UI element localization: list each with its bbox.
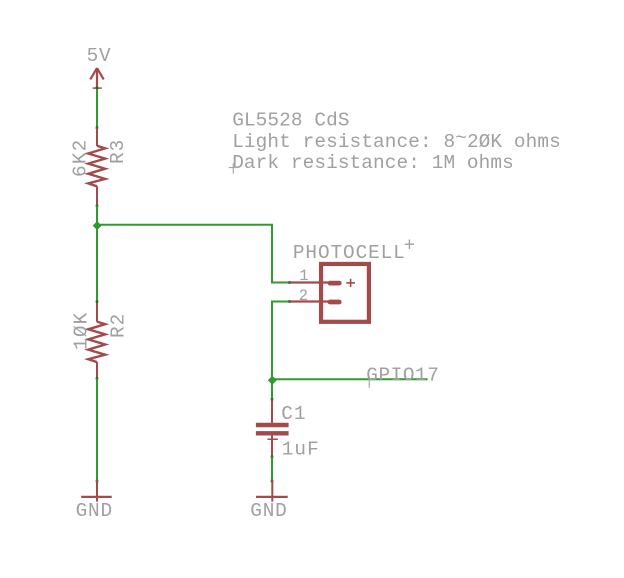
ground symbol left [81,480,112,502]
pin connection dot pin2 [288,300,291,303]
pin 2 lead [290,300,328,302]
pin connection dot top of R3 [96,126,99,129]
svg-text:1uF: 1uF [282,439,320,461]
pin connection dot left GND [96,480,99,483]
pin 1 head bar [330,281,339,286]
pin connection dot right GND [271,480,274,483]
wire C1 to GND [271,457,273,481]
wire pin 2 down to GPIO junction [272,302,290,400]
note text origin cross [229,163,238,173]
resistor R2 [88,302,105,379]
svg-text:GPIO17: GPIO17 [366,365,439,387]
junction node at R3/R2 [93,221,102,230]
svg-text:2: 2 [299,287,308,305]
svg-text:1: 1 [299,267,308,285]
svg-text:C1: C1 [281,403,306,425]
pin connection dot bottom C1 [271,456,274,459]
pin 2 head bar [330,300,339,305]
svg-text:R2: R2 [108,313,130,338]
ground symbol right [256,480,288,502]
pin connection dot bottom R2 [96,377,99,380]
pin connection dot pin1 [288,281,291,284]
wire junction to connector pin 1 [97,225,290,283]
svg-text:1ØK: 1ØK [70,311,92,350]
svg-text:+: + [404,235,415,257]
svg-text:6K2: 6K2 [70,138,92,177]
plus mark at pin 1 [346,279,355,287]
svg-text:5V: 5V [87,45,112,67]
label origin tick [368,379,370,388]
wire R2 to GND [96,379,98,482]
svg-text:GND: GND [76,500,113,522]
junction node GPIO17 [268,376,277,385]
connector U$1 box [321,264,369,322]
wire R3 to R2 vertical [96,206,98,302]
pin connection dot top C1 [271,398,274,401]
pin connection dot top R2 [96,300,99,303]
pin connection dot at 5V pin [96,87,99,90]
pin 1 lead [290,281,328,283]
capacitor C1 [256,399,289,457]
svg-text:GL5528 CdS: GL5528 CdS [232,110,349,132]
wire 5V to R3 [96,88,98,128]
svg-text:PHOTOCELL: PHOTOCELL [293,242,406,264]
resistor R3 [88,128,105,206]
svg-text:Dark resistance: 1M ohms: Dark resistance: 1M ohms [232,152,514,174]
wire GPIO17 net [272,378,428,380]
svg-text:Light resistance: 8~2ØK ohms: Light resistance: 8~2ØK ohms [232,128,561,154]
supply symbol 5V arrow [90,68,103,88]
svg-text:R3: R3 [107,139,129,164]
svg-text:GND: GND [250,500,287,522]
pin connection dot bottom of R3 [96,205,99,208]
